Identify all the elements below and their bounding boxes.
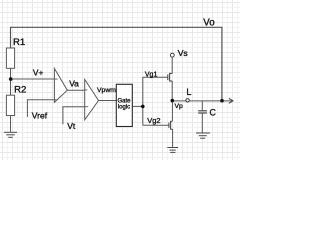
svg-text:Vg2: Vg2 [147, 116, 160, 125]
svg-text:C: C [210, 108, 217, 118]
svg-text:Vs: Vs [178, 48, 188, 58]
svg-text:Vref: Vref [32, 111, 48, 121]
svg-text:Vp: Vp [175, 103, 184, 110]
svg-text:V+: V+ [33, 68, 44, 78]
svg-text:R1: R1 [13, 37, 25, 48]
svg-text:Vt: Vt [67, 121, 76, 131]
svg-text:Va: Va [69, 79, 79, 89]
svg-text:Vpwm: Vpwm [97, 87, 116, 94]
svg-text:Vg1: Vg1 [145, 71, 158, 78]
svg-text:R2: R2 [14, 85, 26, 96]
svg-text:logic: logic [118, 104, 130, 110]
svg-text:L: L [186, 87, 191, 97]
svg-text:Vo: Vo [203, 17, 214, 28]
